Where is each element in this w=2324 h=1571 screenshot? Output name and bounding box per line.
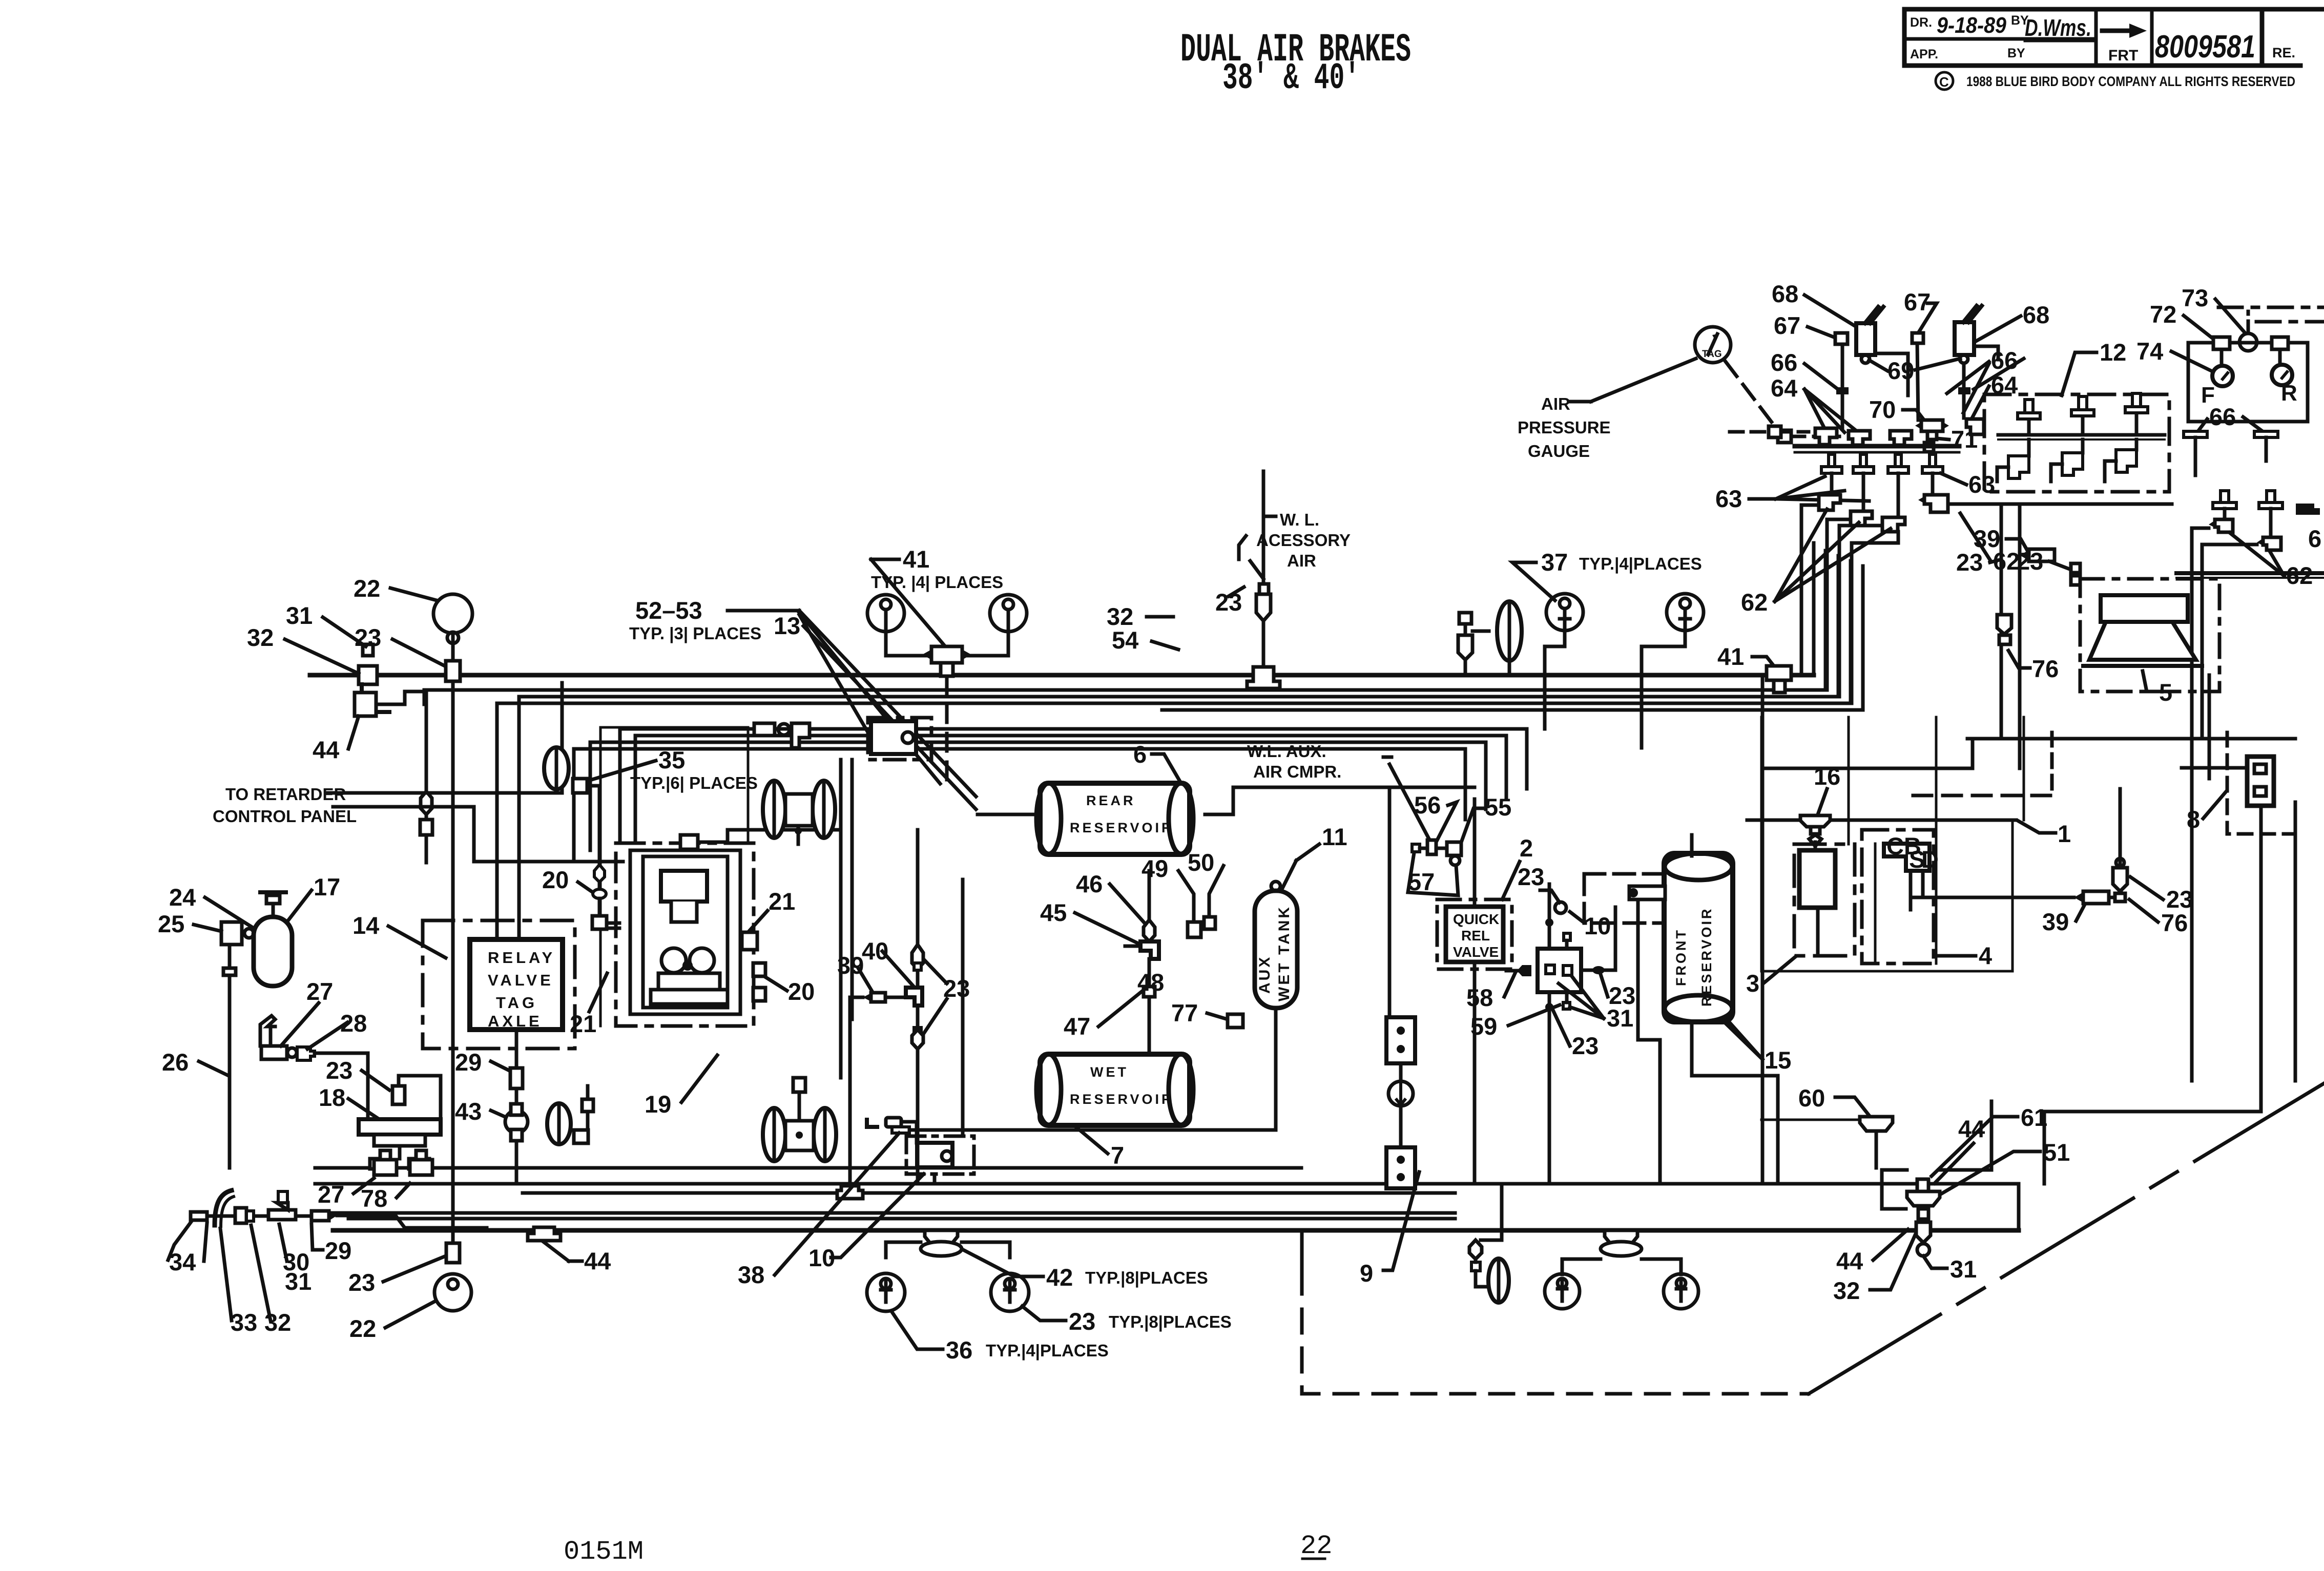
svg-text:64: 64 xyxy=(1771,374,1797,402)
svg-text:32: 32 xyxy=(1833,1277,1860,1304)
label 47 xyxy=(1064,1013,1090,1040)
labels 44 38 10 xyxy=(584,1247,611,1274)
label 23 right xyxy=(1609,982,1635,1009)
label 52-53 xyxy=(629,597,761,643)
wire dashes from tag xyxy=(1726,362,1778,430)
fittings on bus 2280 xyxy=(374,1160,397,1175)
wire verticals cluster xyxy=(1841,344,1844,429)
svg-text:W.L. AUX.: W.L. AUX. xyxy=(1247,742,1326,761)
svg-text:46: 46 xyxy=(1076,870,1103,897)
wire vertical 1791 xyxy=(916,830,920,948)
svg-text:43: 43 xyxy=(455,1098,482,1125)
circle 73 xyxy=(2239,333,2257,351)
label 64 b xyxy=(1991,371,2018,399)
svg-text:55: 55 xyxy=(1485,793,1511,821)
label 8 xyxy=(2187,806,2200,833)
tee 41 xyxy=(931,646,962,663)
label 18 xyxy=(319,1084,345,1111)
label 20 top xyxy=(542,866,569,893)
diamond fitting top xyxy=(912,945,923,969)
studs above mini rail xyxy=(2213,491,2283,537)
dash-dot from left xyxy=(1730,430,1769,434)
arrow fitting 39 xyxy=(871,993,885,1002)
svg-text:70: 70 xyxy=(1869,396,1896,423)
label 45 xyxy=(1040,899,1067,926)
svg-text:66: 66 xyxy=(2209,403,2236,430)
wire verticals 3850/3906/3942 lower xyxy=(1971,739,1975,768)
circle 37 a xyxy=(1546,594,1583,631)
svg-text:W. L.: W. L. xyxy=(1280,510,1319,529)
label 4 xyxy=(1979,942,1992,969)
svg-text:23: 23 xyxy=(355,624,381,651)
relay valve solid box xyxy=(470,939,563,1030)
wire front res feed xyxy=(1638,902,1660,1184)
elbows mini rail xyxy=(2215,519,2233,532)
fittings 72 xyxy=(2213,337,2230,349)
label 39 lower xyxy=(2042,908,2069,935)
wire long vertical left xyxy=(1761,675,1765,1184)
svg-text:33: 33 xyxy=(231,1309,257,1336)
CB box xyxy=(1884,844,1929,871)
left arrow port xyxy=(1517,965,1531,976)
svg-text:ACESSORY: ACESSORY xyxy=(1256,531,1351,550)
svg-text:6: 6 xyxy=(1133,741,1147,768)
svg-text:C: C xyxy=(1939,74,1949,90)
svg-text:22: 22 xyxy=(1300,1531,1332,1561)
wire long diagonal xyxy=(1809,1083,2324,1394)
svg-text:23: 23 xyxy=(1956,549,1983,576)
fitting 66b tick xyxy=(1958,387,1970,394)
stem fittings xyxy=(1481,1184,1502,1240)
fitting 67 left xyxy=(1835,333,1848,344)
wire dashed corner bottom xyxy=(1300,1230,1304,1270)
svg-text:78: 78 xyxy=(361,1185,387,1212)
label 61 xyxy=(2021,1104,2047,1131)
component 8 box xyxy=(2247,757,2274,806)
wire from front res bottom xyxy=(1692,1076,1778,1184)
label 28 xyxy=(340,1010,367,1037)
svg-text:TYP.|8|PLACES: TYP.|8|PLACES xyxy=(1085,1268,1208,1287)
inner boxes xyxy=(630,850,740,1014)
svg-text:RESERVOIR: RESERVOIR xyxy=(1699,907,1714,1007)
svg-text:PRESSURE: PRESSURE xyxy=(1518,418,1611,437)
svg-text:TYP.|4|PLACES: TYP.|4|PLACES xyxy=(986,1341,1109,1360)
wire 60 horizontal xyxy=(1761,1119,1860,1121)
wire right stub xyxy=(1205,787,1291,814)
svg-text:23: 23 xyxy=(1069,1308,1095,1335)
wire drop xyxy=(425,693,428,791)
svg-text:31: 31 xyxy=(1607,1004,1633,1032)
wire staircase drops xyxy=(1801,505,1819,675)
F R gauge panel xyxy=(2182,284,2208,311)
wire 41 right label xyxy=(1717,643,1744,670)
svg-text:AUX: AUX xyxy=(1256,955,1273,994)
L fitting glyph xyxy=(867,1120,877,1127)
wire CB stems xyxy=(1909,871,1913,910)
svg-text:WET TANK: WET TANK xyxy=(1276,905,1293,1001)
stem fittings left of chamber xyxy=(1459,613,1471,624)
wire 39 line xyxy=(1911,896,2074,899)
label 62 right xyxy=(1993,548,2020,575)
svg-text:RESERVOIR: RESERVOIR xyxy=(1070,1092,1174,1107)
wire vertical x3024 xyxy=(1548,884,1551,949)
wire vertical 2712 xyxy=(1388,787,1392,1017)
svg-text:9-18-89: 9-18-89 xyxy=(1937,13,2006,38)
svg-text:CONTROL PANEL: CONTROL PANEL xyxy=(213,807,357,826)
labels 56 55 57 2 xyxy=(1414,791,1441,819)
svg-text:32: 32 xyxy=(247,624,274,651)
wire horizontal y1500 left xyxy=(1762,767,1973,770)
F gauge xyxy=(2212,366,2233,386)
svg-text:RESERVOIR: RESERVOIR xyxy=(1070,820,1174,835)
wire bottom bus 5 xyxy=(348,1217,1455,1221)
wire bottom bus 2 xyxy=(315,1182,2019,1186)
bell 16 xyxy=(1800,815,1830,827)
component 38/10 box (pressure switch) xyxy=(906,1136,974,1174)
wire bottom main thick xyxy=(333,1228,2019,1233)
label 23 xyxy=(355,624,381,651)
svg-text:17: 17 xyxy=(314,873,340,900)
diamond 46 xyxy=(1144,920,1155,941)
tank 17 capsule xyxy=(254,917,292,986)
label 23 bottom xyxy=(1572,1032,1599,1059)
svg-text:TYP. |3| PLACES: TYP. |3| PLACES xyxy=(629,624,761,643)
circle 22 top xyxy=(433,594,472,633)
wire from 39 fitting to 23/76 stack xyxy=(2109,892,2121,897)
wire leader xyxy=(1263,515,1276,518)
footer xyxy=(564,1531,1332,1567)
label 26 xyxy=(162,1049,189,1076)
label 7 xyxy=(1111,1142,1124,1169)
R gauge xyxy=(2272,365,2292,385)
svg-text:49: 49 xyxy=(1142,855,1168,882)
wire 26 down from elbow xyxy=(228,945,232,1168)
labels 32/54 right xyxy=(1107,603,1133,630)
label 68 b xyxy=(2023,301,2049,328)
wire right of box xyxy=(1581,969,1615,972)
svg-text:39: 39 xyxy=(1974,525,2000,552)
svg-text:44: 44 xyxy=(313,736,339,763)
lever valve 27 xyxy=(260,1016,275,1046)
svg-text:1: 1 xyxy=(2058,820,2071,847)
rail xyxy=(1795,444,1959,449)
label 11 xyxy=(1322,823,1347,850)
circles xyxy=(1545,1274,1580,1309)
label 31 xyxy=(286,602,313,629)
wire horizontal y1442 right xyxy=(1973,737,2202,741)
wire dashed drop from tee xyxy=(945,676,949,784)
svg-text:10: 10 xyxy=(1584,912,1611,939)
svg-text:42: 42 xyxy=(1046,1264,1073,1291)
label 66 left xyxy=(1771,349,1797,376)
svg-text:22: 22 xyxy=(354,575,380,602)
wire lower cluster 1 xyxy=(620,729,1527,840)
svg-text:6: 6 xyxy=(2308,525,2321,552)
dash-dot wires top right xyxy=(2247,311,2250,333)
wire down to circles xyxy=(886,1242,921,1258)
label 1 xyxy=(2058,820,2071,847)
dashed box 19 xyxy=(616,843,754,1026)
bell fitting on bus xyxy=(1247,667,1280,688)
wire vertical through qrv xyxy=(1473,799,1477,907)
wire y1537 to 55 xyxy=(1291,786,1475,789)
label 32 bottom xyxy=(1833,1277,1860,1304)
svg-text:12: 12 xyxy=(2100,339,2126,366)
svg-text:48: 48 xyxy=(1137,969,1164,996)
fitting 23 on WL line xyxy=(1256,594,1271,621)
svg-text:8009581: 8009581 xyxy=(2155,29,2255,65)
fitting 21 xyxy=(742,932,757,950)
wire aux tank drop xyxy=(1274,1040,1278,1130)
wire verticals right of cluster xyxy=(2000,504,2003,738)
svg-text:58: 58 xyxy=(1466,984,1493,1011)
black fitting top right xyxy=(2296,504,2320,515)
wire down from tee xyxy=(1148,959,1151,1054)
label 67 b xyxy=(1904,288,1931,316)
label 41 xyxy=(903,546,929,573)
TAG gauge circle xyxy=(1695,327,1731,363)
wire bottom horizontal y1896 xyxy=(1761,970,2012,973)
svg-text:BY: BY xyxy=(2007,46,2025,60)
svg-text:VALVE: VALVE xyxy=(488,971,554,989)
svg-text:DR.: DR. xyxy=(1910,15,1932,30)
brake chamber pair upper (35 area) xyxy=(763,781,835,844)
svg-text:39: 39 xyxy=(837,952,864,979)
svg-text:47: 47 xyxy=(1064,1013,1090,1040)
label 15 xyxy=(1765,1046,1791,1074)
wires from elbows left and down xyxy=(2192,528,2209,1081)
svg-text:VALVE: VALVE xyxy=(1453,944,1499,960)
wire circle stems to tee xyxy=(886,632,931,656)
label 15 xyxy=(1765,1046,1791,1074)
valve body V1 xyxy=(1856,323,1875,355)
svg-text:68: 68 xyxy=(2023,301,2049,328)
label 51 xyxy=(2043,1139,2070,1166)
wire vertical from circle 22 down xyxy=(451,634,455,1260)
svg-text:59: 59 xyxy=(1470,1013,1497,1040)
wire long right verticals xyxy=(2119,789,2122,868)
label 14 xyxy=(352,912,379,939)
wire 62r horizontal xyxy=(1948,502,2172,506)
svg-text:TYP.|4|PLACES: TYP.|4|PLACES xyxy=(1579,554,1702,573)
label 31 xyxy=(1607,1004,1633,1032)
wire stub top xyxy=(1690,835,1694,856)
brake chamber mid xyxy=(1497,601,1522,661)
wire bus B xyxy=(424,551,1825,704)
bell fitting under bus xyxy=(925,1230,958,1245)
elbow 25 left of tank xyxy=(221,922,242,945)
svg-text:15: 15 xyxy=(1765,1046,1791,1074)
label 31 bottom xyxy=(1950,1255,1977,1283)
svg-text:23: 23 xyxy=(1518,863,1544,890)
svg-text:21: 21 xyxy=(570,1010,596,1037)
svg-text:TAG: TAG xyxy=(1702,349,1722,360)
wire lower cluster 3 xyxy=(590,742,1486,850)
label 68 left xyxy=(1772,280,1798,307)
tee on top xyxy=(680,835,698,849)
svg-text:14: 14 xyxy=(352,912,379,939)
pipe row xyxy=(200,1214,312,1218)
svg-text:29: 29 xyxy=(325,1237,351,1264)
label 10 + dashed box xyxy=(1584,912,1611,939)
wire 13-box drops xyxy=(839,760,843,1078)
governor box xyxy=(1538,949,1581,992)
brake chamber xyxy=(1488,1259,1509,1303)
diamond fitting bottom xyxy=(914,1028,921,1035)
outer subsystem box xyxy=(600,727,748,1026)
svg-text:76: 76 xyxy=(2161,909,2188,936)
wire main top bus xyxy=(310,673,1814,678)
label 63 left xyxy=(1715,485,1742,512)
wire lower cluster 4 xyxy=(574,749,1465,861)
svg-text:TYP.|6| PLACES: TYP.|6| PLACES xyxy=(630,773,758,792)
box at 3673,2284 xyxy=(1882,1170,1907,1209)
svg-text:AIR CMPR.: AIR CMPR. xyxy=(1253,762,1341,781)
label 23 upper right xyxy=(2017,548,2043,575)
fitting 43 xyxy=(505,1111,528,1133)
staircase elbows xyxy=(1819,495,1840,510)
svg-text:GAUGE: GAUGE xyxy=(1528,442,1590,460)
svg-text:23: 23 xyxy=(1572,1032,1599,1059)
tee under bus xyxy=(1605,1230,1637,1245)
svg-text:FRONT: FRONT xyxy=(1673,928,1689,986)
elbow 62 right xyxy=(1924,495,1948,512)
label 19 xyxy=(645,1091,671,1118)
wire verticals misc xyxy=(1848,717,1850,844)
labels 27 78 xyxy=(318,1181,344,1208)
label 71 xyxy=(1951,426,1978,453)
svg-text:23: 23 xyxy=(326,1057,352,1084)
svg-text:36: 36 xyxy=(946,1336,972,1364)
23/76 stack xyxy=(2113,868,2127,891)
label 66 panel xyxy=(2209,403,2236,430)
svg-text:1988 BLUE BIRD BODY COMPANY AL: 1988 BLUE BIRD BODY COMPANY ALL RIGHTS R… xyxy=(1966,74,2295,89)
bell 60 xyxy=(1860,1117,1893,1131)
label 40 xyxy=(862,937,888,965)
tee at 1659 on bus xyxy=(837,1186,863,1199)
wire 8 stem down xyxy=(2259,806,2263,1112)
svg-text:23: 23 xyxy=(2017,548,2043,575)
component 13 box xyxy=(868,718,931,760)
svg-text:72: 72 xyxy=(2150,301,2176,328)
wire vertical 1659 xyxy=(848,997,852,1076)
label 67 left xyxy=(1774,312,1800,339)
fitting 23 bottom stem xyxy=(446,1243,460,1263)
svg-text:5: 5 xyxy=(2159,679,2172,706)
wire bus C xyxy=(519,556,1838,939)
label 21 left xyxy=(570,1010,596,1037)
wire retarder top xyxy=(328,791,562,795)
tee 70 xyxy=(1921,420,1943,431)
wire vertical from main bus up right xyxy=(1812,543,1816,675)
svg-text:31: 31 xyxy=(285,1268,312,1295)
svg-text:38: 38 xyxy=(738,1261,764,1288)
svg-text:18: 18 xyxy=(319,1084,345,1111)
circles xyxy=(867,1273,905,1311)
labels 49 50 xyxy=(1142,855,1168,882)
svg-text:13: 13 xyxy=(774,612,800,639)
label 23 xyxy=(326,1057,352,1084)
svg-text:9: 9 xyxy=(1360,1260,1373,1287)
wire out bottom xyxy=(515,1030,518,1184)
svg-text:77: 77 xyxy=(1171,999,1198,1027)
fitting 23 on stem xyxy=(446,661,460,681)
label 29 xyxy=(455,1049,482,1076)
label 9 xyxy=(1360,1260,1373,1287)
svg-text:22: 22 xyxy=(349,1315,376,1342)
leader fan for 52-53 xyxy=(799,611,976,797)
svg-text:35: 35 xyxy=(658,746,685,773)
wire stems xyxy=(1545,631,1565,675)
label 13 xyxy=(774,612,800,639)
svg-text:68: 68 xyxy=(1772,280,1798,307)
wire 16 horizontal xyxy=(1747,819,2016,822)
svg-text:0151M: 0151M xyxy=(564,1537,644,1567)
svg-text:3: 3 xyxy=(1746,970,1759,997)
svg-text:RE.: RE. xyxy=(2272,45,2295,60)
circle pair 41 xyxy=(867,595,904,632)
label 23 cluster bottom xyxy=(1956,549,1983,576)
svg-text:REL: REL xyxy=(1461,928,1490,944)
svg-text:2: 2 xyxy=(1520,834,1533,862)
svg-text:20: 20 xyxy=(542,866,569,893)
label 25 xyxy=(158,910,184,937)
stud stems xyxy=(1830,473,1834,495)
label 44 upper xyxy=(1958,1115,1985,1142)
wire bottom bus 3 xyxy=(523,1191,1455,1195)
wire lower cluster 2 xyxy=(635,736,1506,840)
label 24 xyxy=(169,884,196,911)
wire dashes y1553 xyxy=(1913,794,2052,798)
wire bottom bus 1 xyxy=(315,1166,1301,1170)
svg-text:QUICK: QUICK xyxy=(1453,911,1499,927)
label 17 xyxy=(314,873,340,900)
svg-text:AIR: AIR xyxy=(1541,394,1570,413)
svg-text:27: 27 xyxy=(306,978,333,1005)
label 64 left xyxy=(1771,374,1797,402)
tee fitting 41 right on bus xyxy=(1767,666,1791,680)
wire vertical 1879 xyxy=(961,879,965,1136)
label 32 xyxy=(247,624,274,651)
svg-text:29: 29 xyxy=(455,1049,482,1076)
FRT arrow xyxy=(2102,24,2147,38)
diamond fitting xyxy=(421,791,432,814)
svg-text:31: 31 xyxy=(1950,1255,1977,1283)
wire bottom bus 4 xyxy=(313,1211,1455,1215)
elbow 64 right of tee xyxy=(1966,419,1984,434)
svg-text:11: 11 xyxy=(1322,823,1347,850)
label 23 xyxy=(943,975,970,1002)
labels 42 23 36 xyxy=(1046,1264,1208,1291)
label 69 xyxy=(1887,357,1914,384)
svg-text:AIR: AIR xyxy=(1287,551,1316,570)
wire mid horizontals right xyxy=(1967,737,2295,741)
small fittings left of 13 box xyxy=(754,723,775,736)
label 44 lower xyxy=(1836,1247,1863,1274)
drain cocks in 12 xyxy=(1998,433,2165,437)
svg-text:74: 74 xyxy=(2136,338,2163,365)
title block xyxy=(1904,9,2324,90)
label 21 right xyxy=(769,888,795,915)
label 44 xyxy=(313,736,339,763)
svg-text:62: 62 xyxy=(1741,589,1768,616)
elbow row 64 xyxy=(1815,428,1837,445)
valve body top xyxy=(661,871,707,902)
svg-text:21: 21 xyxy=(769,888,795,915)
svg-text:25: 25 xyxy=(158,910,184,937)
label 22 xyxy=(354,575,380,602)
circle 37 b xyxy=(1667,594,1704,631)
